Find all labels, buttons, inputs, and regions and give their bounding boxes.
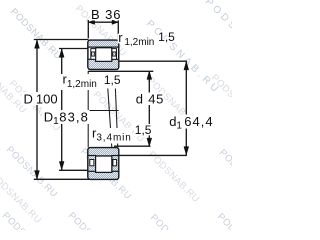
D extension line top <box>34 39 89 41</box>
svg-text:B36: B36 <box>91 7 121 22</box>
D1 extension line top <box>59 48 89 50</box>
mask under r3,4min <box>91 128 133 144</box>
d1 extension line top (raceway) <box>119 60 187 62</box>
chamfer leader right <box>115 89 117 148</box>
B arrow left <box>88 20 94 24</box>
section outline box top <box>88 40 119 69</box>
D1 extension line bottom <box>59 169 89 171</box>
svg-text:D183,8: D183,8 <box>44 110 89 128</box>
D1 arrow up <box>59 49 64 57</box>
outer ring with side shoulders bottom section <box>88 171 119 180</box>
cage pocket right top section <box>112 49 117 60</box>
d arrow up <box>147 71 152 79</box>
d1 dimension line <box>185 61 187 155</box>
mask under d1 64,4 <box>168 115 216 129</box>
inner ring with side shoulders top section <box>88 59 119 69</box>
D1 dimension line <box>61 49 63 170</box>
roller top section <box>96 48 112 62</box>
d1 arrow up <box>184 62 189 70</box>
B dimension line <box>88 21 118 23</box>
chamfer tick horizontal <box>88 110 119 112</box>
mask under D1 83,8 <box>42 110 90 124</box>
D1 arrow down <box>59 162 64 170</box>
cage pocket right bottom section <box>113 160 117 166</box>
cage bar hatched left top section <box>92 52 95 56</box>
outer ring bar top section <box>88 40 119 47</box>
section outline box bottom <box>88 148 119 180</box>
B extension line right <box>117 20 119 38</box>
d extension line bottom (bore) <box>114 145 151 147</box>
cage pocket left top section <box>91 49 96 60</box>
mask under 1,5 value r34 <box>134 124 149 136</box>
left flange column bottom section <box>88 156 96 172</box>
chamfer leader left <box>108 89 112 148</box>
svg-text:d164,4: d164,4 <box>169 114 213 132</box>
d extension line top (bore) <box>89 70 154 72</box>
edge line between sections at bore left <box>87 71 89 148</box>
right flange column bottom section <box>112 156 119 172</box>
D extension line bottom <box>34 178 90 180</box>
inner ring bar bottom section <box>88 148 119 156</box>
svg-text:d45: d45 <box>136 92 164 107</box>
svg-text:1,5: 1,5 <box>135 123 152 137</box>
d arrow down <box>147 138 152 146</box>
D arrow up <box>35 40 40 48</box>
d dimension line <box>148 72 150 147</box>
d1 extension line bottom (raceway) <box>119 154 187 156</box>
bearing cross-section drawing NUP cylindrical roller bearing <box>0 0 232 230</box>
arrowheads <box>35 20 189 179</box>
cage bar hatched right top section <box>113 52 116 56</box>
cage pocket left bottom section <box>90 160 94 166</box>
B extension line left <box>87 20 89 38</box>
mask under r1,2min mid <box>61 74 99 90</box>
mask under D 100 <box>22 92 60 105</box>
D arrow down <box>35 171 40 179</box>
d1 arrow down <box>184 147 189 155</box>
roller bottom section <box>96 156 112 172</box>
mask under d 45 <box>134 93 165 106</box>
svg-text:D100: D100 <box>24 91 58 106</box>
B arrow right <box>112 20 118 24</box>
D dimension line <box>36 40 38 179</box>
